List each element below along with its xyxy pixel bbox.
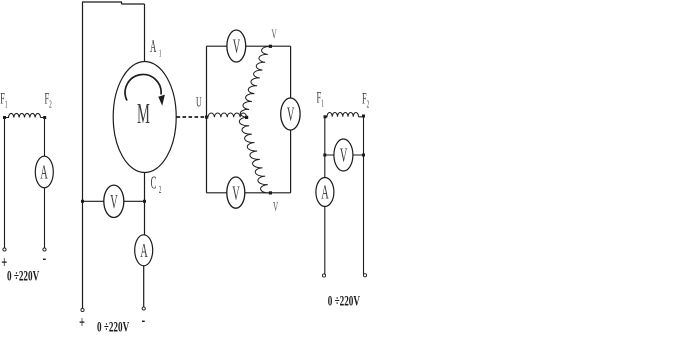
svg-text:V: V bbox=[110, 192, 118, 213]
svg-text:0 ÷220V: 0 ÷220V bbox=[7, 267, 39, 284]
svg-text:V: V bbox=[233, 36, 241, 57]
wire left vertical (field) coil to voltmeter branch bbox=[324, 117, 326, 178]
voltmeter V line right bbox=[281, 98, 300, 130]
svg-text:F2: F2 bbox=[45, 90, 52, 110]
voltmeter V line top bbox=[227, 30, 246, 62]
svg-text:V: V bbox=[340, 145, 348, 166]
wire right vertical (field) bbox=[363, 117, 365, 274]
phase winding U (horizontal coil to star point) bbox=[208, 113, 247, 117]
voltmeter V across armature bbox=[104, 185, 124, 217]
wire generator frame bottom edge bbox=[206, 192, 290, 194]
svg-text:F2: F2 bbox=[362, 90, 369, 110]
junction dot right end of field coil bbox=[362, 115, 365, 118]
junction dot left (field voltmeter branch) bbox=[323, 154, 326, 157]
svg-text:0 ÷220V: 0 ÷220V bbox=[97, 318, 129, 335]
wire right vertical from coil to ammeter bbox=[44, 118, 46, 157]
ammeter A (left circuit) bbox=[35, 156, 53, 188]
inductor L2 generator field coil bbox=[325, 112, 364, 116]
wire right vertical from top to armature terminal A1 bbox=[144, 4, 146, 62]
svg-text:+: + bbox=[1, 253, 7, 272]
junction dot left (voltmeter branch) bbox=[81, 200, 84, 203]
wire from motor bottom to measuring node bbox=[144, 172, 146, 235]
wire top horizontal (armature supply, upper-right segment) bbox=[122, 2, 145, 4]
svg-text:V: V bbox=[273, 200, 278, 215]
svg-text:-: - bbox=[43, 249, 47, 268]
svg-text:+: + bbox=[79, 313, 85, 332]
wire generator frame right edge bbox=[290, 46, 292, 193]
star point junction dot bbox=[245, 116, 248, 119]
junction dot right (field voltmeter branch) bbox=[362, 154, 365, 157]
wire horizontal voltmeter branch (field) bbox=[325, 154, 364, 156]
wire from ammeter to - terminal bbox=[44, 188, 46, 248]
motor M armature circle bbox=[113, 62, 176, 173]
wire left vertical from coil to + terminal bbox=[4, 118, 6, 248]
wire generator frame left edge bbox=[206, 46, 208, 193]
wire top horizontal (armature supply, upper-left segment) bbox=[82, 1, 122, 3]
junction dot node U on left edge bbox=[205, 116, 208, 119]
terminal - (left circuit, open circle) bbox=[43, 248, 46, 251]
wire from field ammeter to terminal bbox=[324, 207, 326, 275]
svg-text:F1: F1 bbox=[317, 89, 324, 109]
voltmeter V across field bbox=[334, 139, 353, 171]
rotation arrow arc inside motor bbox=[125, 74, 165, 105]
svg-text:A: A bbox=[40, 162, 48, 183]
terminal right (right circuit) bbox=[363, 274, 366, 277]
wire from ammeter to - terminal (middle circuit) bbox=[143, 266, 145, 307]
junction dot left end of field coil bbox=[324, 115, 327, 118]
ammeter A (armature current) bbox=[135, 235, 153, 266]
svg-text:A: A bbox=[321, 182, 329, 203]
svg-text:A: A bbox=[140, 241, 148, 262]
dashed shaft coupling motor to generator bbox=[177, 116, 207, 118]
svg-text:-: - bbox=[142, 311, 146, 330]
terminal + (left circuit, open circle) bbox=[3, 248, 6, 251]
ammeter A field current bbox=[316, 178, 334, 207]
svg-text:V: V bbox=[272, 27, 277, 42]
phase winding W lower (wavy coil to bottom terminal) bbox=[239, 117, 270, 193]
phase winding V upper (wavy coil to top terminal) bbox=[240, 46, 270, 117]
wire horizontal voltmeter branch bbox=[83, 200, 145, 202]
svg-text:U: U bbox=[196, 93, 202, 111]
svg-text:F1: F1 bbox=[0, 90, 7, 110]
wire left vertical (motor + rail) bbox=[82, 2, 84, 308]
junction dot top phase terminal bbox=[269, 45, 272, 48]
terminal + (middle circuit) bbox=[81, 308, 84, 311]
voltmeter V line bottom bbox=[227, 177, 245, 208]
terminal - (middle circuit) bbox=[142, 307, 145, 310]
svg-text:0 ÷220V: 0 ÷220V bbox=[328, 292, 360, 309]
svg-text:A1: A1 bbox=[150, 37, 161, 59]
junction dot right end of coil bbox=[43, 116, 46, 119]
wire generator frame top edge bbox=[206, 45, 290, 47]
svg-text:M: M bbox=[137, 98, 150, 130]
terminal left (right circuit) bbox=[322, 274, 325, 277]
svg-text:C2: C2 bbox=[151, 173, 162, 195]
junction dot left end of coil bbox=[3, 116, 6, 119]
svg-text:V: V bbox=[232, 183, 240, 204]
inductor L1 left field winding coil bbox=[5, 113, 45, 117]
svg-text:V: V bbox=[287, 104, 295, 125]
junction dot bottom phase terminal bbox=[269, 191, 272, 194]
junction dot right (voltmeter branch) bbox=[143, 200, 146, 203]
